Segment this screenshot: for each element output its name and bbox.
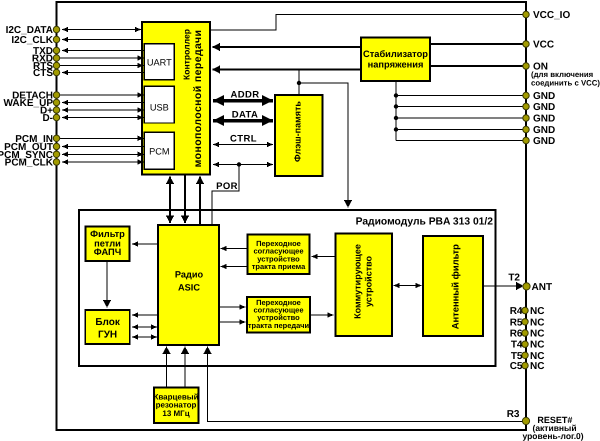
pin D- [53, 114, 59, 120]
svg-text:ГУН: ГУН [98, 330, 117, 341]
svg-text:DATA: DATA [232, 110, 259, 121]
svg-text:монополосной передачи: монополосной передачи [192, 30, 204, 168]
svg-text:Блок: Блок [95, 317, 121, 328]
pin GND 1 [523, 92, 529, 98]
pin TXD [53, 47, 59, 53]
svg-text:R5: R5 [510, 317, 523, 328]
switching device: Коммутирующее устройство [336, 234, 393, 337]
svg-text:POR: POR [216, 181, 238, 192]
wire CTS [62, 72, 145, 74]
svg-text:GND: GND [533, 102, 555, 113]
svg-text:PCM_CLK: PCM_CLK [5, 158, 54, 169]
pin PCM_OUT [53, 143, 59, 149]
svg-text:Радио: Радио [175, 270, 204, 280]
pin VCC_IO [523, 11, 529, 17]
junction node POR [237, 162, 241, 166]
svg-text:NC: NC [530, 361, 544, 372]
pin R6 NC [522, 330, 528, 336]
pin PCM_SYNC [53, 151, 59, 157]
pin R5 NC [522, 319, 528, 325]
wire antenna filter to ANT pin [483, 285, 524, 287]
USB block inside controller [144, 86, 174, 123]
svg-text:UART: UART [147, 57, 172, 67]
svg-text:Радиомодуль PBA 313 01/2: Радиомодуль PBA 313 01/2 [356, 217, 494, 228]
bus CTRL [213, 144, 273, 146]
pin C5 NC [522, 362, 528, 368]
bus ADDR [213, 99, 273, 103]
wire switch to antenna filter bidirectional [394, 285, 422, 287]
svg-text:тракта приема: тракта приема [252, 262, 306, 271]
svg-text:GND: GND [533, 114, 555, 125]
wire PCM_SYNC [62, 153, 144, 155]
voltage regulator U2: Стабилизатор напряжения [361, 38, 430, 82]
wire controller to ASIC down arrow [184, 175, 186, 223]
wire PCM_IN [57, 137, 144, 139]
svg-text:C5: C5 [510, 361, 523, 372]
svg-text:Контроллер: Контроллер [182, 29, 192, 80]
wire VCC net right segment [429, 43, 526, 45]
outer frame [57, 2, 527, 430]
wire ON net left segment with arrow into controller [213, 68, 362, 70]
svg-text:CTRL: CTRL [230, 134, 257, 145]
wire ASIC to VCO 1 [132, 314, 158, 316]
svg-text:NC: NC [530, 340, 544, 351]
svg-text:VCC: VCC [533, 40, 554, 51]
wire ON branch down to flash [298, 70, 300, 96]
svg-text:уровень-лог.0): уровень-лог.0) [523, 431, 584, 441]
pin PCM_IN [53, 135, 59, 141]
svg-text:GND: GND [533, 91, 555, 102]
crystal resonator Y1: Кварцевый резонатор 13 МГц [153, 388, 198, 424]
svg-text:Фильтр: Фильтр [90, 229, 125, 239]
pin I2C_DATA [53, 26, 59, 32]
wire ON net right segment [429, 65, 526, 67]
wire D- [62, 117, 144, 119]
svg-text:T2: T2 [508, 273, 520, 284]
wire GND 3 [396, 117, 526, 119]
svg-text:NC: NC [530, 329, 544, 340]
flash memory U3: Флэш-память [275, 95, 323, 176]
pin PCM_CLK [53, 159, 59, 165]
svg-text:13 МГц: 13 МГц [162, 409, 189, 418]
controller U1: Контроллер монополосной передачи [142, 22, 210, 175]
UART block inside controller [144, 44, 174, 80]
pin DETACH [53, 92, 59, 98]
pin GND 3 [523, 115, 529, 121]
wire ASIC to TX match 2 [219, 321, 246, 323]
radio module inner frame: Радиомодуль PBA 313 01/2 [79, 210, 496, 366]
wire PLL filter to VCO [106, 261, 108, 308]
wire PCM_CLK [62, 161, 144, 163]
wire branch to radio module frame with down arrow [299, 83, 348, 208]
PLL loop filter: Фильтр петли ФАПЧ [86, 227, 130, 262]
pin RXD [53, 55, 59, 61]
wire WAKE_UP [62, 102, 145, 104]
svg-text:устройство: устройство [364, 255, 374, 307]
bus DATA [213, 119, 273, 123]
antenna filter: Антенный фильтр [423, 236, 483, 336]
radio ASIC U4 [158, 225, 219, 345]
svg-text:ASIC: ASIC [178, 283, 200, 293]
wire switch to RX match [312, 256, 336, 258]
TX matching block: Переходное согласующее устройство тракта передачи [247, 297, 310, 333]
pin R4 NC [522, 307, 528, 313]
wire GND 1 [396, 95, 526, 97]
wire POR branch down into ASIC [212, 165, 239, 226]
svg-text:NC: NC [530, 317, 544, 328]
svg-text:ADDR: ADDR [230, 90, 259, 101]
pin T4 NC [522, 341, 528, 347]
wire ASIC to PLL filter [132, 243, 158, 245]
wire GND 2 [396, 106, 526, 108]
wire ASIC-VCO 2 [132, 326, 157, 328]
wire resonator to ASIC 2 [184, 347, 186, 388]
svg-text:R4: R4 [510, 306, 523, 317]
svg-text:PCM: PCM [149, 146, 169, 156]
svg-text:I2C_CLK: I2C_CLK [11, 35, 53, 46]
junction node on ON branch [297, 81, 301, 85]
VCO block: Блок ГУН [85, 310, 129, 344]
pin WAKE_UP [53, 99, 59, 105]
wire controller-ASIC bidirectional [169, 177, 171, 224]
svg-text:соединить с VCC): соединить с VCC) [531, 79, 600, 88]
svg-text:GND: GND [533, 136, 555, 147]
svg-text:R3: R3 [507, 409, 520, 420]
RX matching block: Переходное согласующее устройство тракта приема [248, 235, 310, 275]
pin GND 5 [523, 137, 529, 143]
svg-text:GND: GND [533, 125, 555, 136]
junction dots on GND rail [394, 93, 398, 97]
wire ASIC-VCO 3 [132, 336, 157, 338]
wire RX match to ASIC 2 [221, 266, 248, 268]
wire resonator to ASIC 1 [166, 347, 168, 388]
wire PCM_OUT [62, 146, 145, 148]
pin D+ [53, 107, 59, 113]
wire TX match to switch [310, 314, 334, 316]
svg-text:Коммутирующее: Коммутирующее [352, 244, 362, 319]
pin ON [523, 63, 529, 69]
pin RTS [53, 62, 59, 68]
svg-text:T4: T4 [511, 340, 523, 351]
svg-text:ФАПЧ: ФАПЧ [94, 247, 122, 257]
wire TXD [62, 50, 145, 52]
pin I2C_CLK [53, 36, 59, 42]
svg-text:R6: R6 [510, 329, 523, 340]
svg-text:USB: USB [150, 102, 169, 112]
wire DETACH [57, 94, 144, 96]
pin CTS [53, 69, 59, 75]
svg-text:Флэш-память: Флэш-память [293, 101, 303, 162]
wire RTS [57, 65, 144, 67]
wire I2C_CLK [62, 39, 142, 41]
svg-text:Стабилизатор: Стабилизатор [363, 49, 428, 59]
wire POR between controller and flash [213, 164, 273, 166]
wire VCC net left segment with arrow into controller [213, 46, 362, 48]
svg-text:VCC_IO: VCC_IO [533, 10, 570, 21]
wire RESET net: R3 pin up into ASIC [208, 347, 527, 422]
pin VCC [523, 41, 529, 47]
svg-text:ANT: ANT [532, 282, 553, 293]
wire regulator to GND rail vertical [395, 81, 397, 141]
pin T5 NC [522, 352, 528, 358]
pin GND 4 [523, 126, 529, 132]
wire VCC_IO net [211, 15, 526, 31]
wire ASIC to controller up arrow [199, 177, 201, 226]
pin R3 RESET# [522, 417, 529, 424]
wire GND 5 [396, 140, 526, 142]
wire RX match to ASIC 1 [221, 248, 248, 250]
wire RXD [57, 57, 144, 59]
wire I2C_DATA [62, 29, 141, 31]
svg-text:напряжения: напряжения [368, 60, 424, 70]
wire GND 4 [396, 129, 526, 131]
svg-text:тракта передачи: тракта передачи [248, 321, 310, 330]
svg-text:CTS: CTS [33, 68, 53, 79]
pin ANT with pad label T2 [523, 283, 530, 290]
PCM block inside controller [144, 132, 174, 169]
wire ASIC to TX match 1 [219, 306, 246, 308]
wire D+ [62, 109, 144, 111]
svg-text:D-: D- [42, 113, 53, 124]
pin GND 2 [523, 103, 529, 109]
svg-text:NC: NC [530, 306, 544, 317]
svg-text:Антенный фильтр: Антенный фильтр [449, 244, 460, 329]
